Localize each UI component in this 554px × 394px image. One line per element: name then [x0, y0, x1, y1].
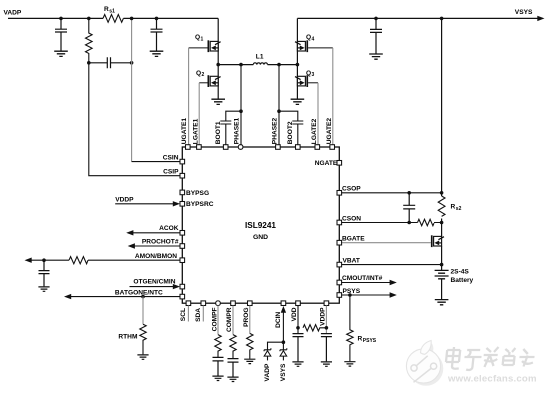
wire Q4 drain / phase2 column — [296, 18, 298, 98]
svg-text:Q: Q — [196, 70, 201, 77]
svg-text:CSON: CSON — [342, 215, 361, 222]
resistor AMON filter — [69, 257, 88, 264]
pin LGATE2 — [311, 118, 320, 149]
svg-text:BYPSG: BYPSG — [186, 190, 209, 197]
wire CSIN sense line — [132, 18, 180, 161]
resistor RTHM — [118, 324, 146, 354]
node AMON cap junction — [42, 258, 46, 262]
wire UGATE2 gate line — [308, 48, 333, 145]
pin PHASE2 — [272, 117, 281, 149]
svg-text:GND: GND — [253, 234, 268, 241]
svg-text:www.elecfans.com: www.elecfans.com — [447, 374, 537, 385]
diode VSYS ORing — [280, 342, 287, 381]
resistor PROG — [247, 333, 253, 358]
pin AMON/BMON — [135, 253, 185, 263]
node cap-left junction — [87, 61, 91, 65]
node phase1 — [216, 63, 220, 67]
svg-text:BOOT1: BOOT1 — [215, 121, 222, 144]
svg-text:CSIN: CSIN — [163, 154, 179, 161]
ground (VDD cap) — [292, 362, 303, 366]
svg-text:VADP: VADP — [4, 9, 22, 16]
capacitor CSOP-CSON filter — [403, 193, 415, 223]
ground (Q2 source) — [211, 99, 225, 104]
pin UGATE2 — [326, 118, 335, 150]
pin VDDP — [320, 301, 329, 334]
pin PSYS — [337, 288, 361, 298]
wire Q1 drain / phase1 column — [217, 18, 219, 98]
svg-text:3: 3 — [312, 72, 315, 78]
svg-text:VBAT: VBAT — [343, 257, 360, 264]
svg-text:VDDP: VDDP — [320, 307, 327, 326]
svg-text:2: 2 — [202, 72, 205, 78]
wire CMOUT/INT# output — [339, 280, 397, 285]
svg-text:CMOUT/INT#: CMOUT/INT# — [342, 275, 383, 282]
svg-text:NGATE: NGATE — [315, 160, 338, 167]
wire ACOK output arrow — [126, 230, 180, 235]
wire LGATE2 gate line — [308, 83, 318, 145]
pin NGATE — [315, 160, 342, 167]
pin CMOUT/INT# — [337, 275, 383, 285]
pin DCIN — [275, 301, 286, 342]
wire PHASE1 line down — [240, 65, 242, 145]
capacitor (horizontal, across Rs1) — [89, 57, 132, 68]
wire L1 to phase2 — [268, 64, 298, 66]
ground (RTHM) — [137, 355, 148, 359]
svg-text:COMPF: COMPF — [212, 308, 219, 332]
wire to VADP diode — [268, 342, 284, 350]
wire AMON/BMON output — [25, 258, 181, 263]
svg-text:L1: L1 — [256, 53, 264, 60]
capacitor COMPF — [213, 357, 224, 375]
wire phase1 to L1 — [218, 64, 253, 66]
pin ACOK — [159, 225, 185, 235]
wire OTGEN/CMIN input arrow — [130, 284, 181, 289]
svg-text:Q: Q — [195, 34, 200, 41]
svg-text:PSYS: PSYS — [343, 288, 361, 295]
resistor Rs1 — [103, 6, 123, 23]
pin PROCHOT# — [142, 239, 185, 249]
capacitor BOOT1 bootstrap — [220, 111, 241, 144]
svg-text:RTHM: RTHM — [118, 334, 138, 341]
ground (VDDP cap) — [321, 362, 332, 366]
wire PSYS output — [339, 292, 397, 297]
svg-text:SDA: SDA — [195, 308, 202, 322]
node cap-right junction — [130, 61, 134, 65]
resistor VDD-VDDP — [303, 325, 326, 331]
svg-text:1: 1 — [201, 36, 204, 42]
net label VADP — [4, 9, 22, 16]
ground (RPSYS) — [344, 362, 355, 366]
node CSOP-cap junction — [407, 191, 411, 195]
svg-text:Q: Q — [306, 34, 311, 41]
transistor BGATE FET — [431, 235, 444, 247]
capacitor input C (VADP) — [55, 18, 67, 50]
node phase2 / PHASE2 tap — [277, 63, 281, 67]
battery 2S-4S — [435, 268, 474, 284]
svg-text:PHASE1: PHASE1 — [233, 117, 240, 144]
node BOOT2 tap — [277, 109, 281, 113]
resistor COMPF — [215, 335, 221, 358]
ground (Q1 drain C) — [150, 51, 164, 56]
resistor COMPR — [230, 335, 236, 359]
wire PHASE2 line down — [278, 65, 280, 145]
ground (AMON cap) — [38, 287, 49, 291]
svg-text:BATGONE/NTC: BATGONE/NTC — [115, 289, 163, 296]
pin SDA — [195, 301, 206, 322]
wire VADP rail — [8, 17, 218, 19]
pin PHASE1 — [233, 117, 243, 149]
wire RTHM branch — [142, 297, 144, 325]
pin BYPSRC — [180, 201, 214, 208]
pin LGATE1 — [193, 118, 202, 149]
pin BOOT2 — [287, 121, 300, 149]
pin BOOT1 — [215, 121, 228, 149]
svg-text:PROCHOT#: PROCHOT# — [142, 239, 179, 246]
svg-text:VDDP: VDDP — [115, 196, 134, 203]
wire UGATE1 gate line — [189, 48, 208, 145]
svg-text:UGATE1: UGATE1 — [181, 118, 188, 145]
svg-text:4: 4 — [312, 36, 315, 42]
node RTHM tap — [141, 295, 145, 299]
node VSYS down-rail junction — [440, 17, 444, 21]
diode VADP ORing — [264, 348, 271, 381]
ground (Q3 source) — [291, 99, 305, 104]
pin VDD — [291, 301, 300, 334]
transistor Q1 — [195, 34, 221, 52]
node VSYS-C junction — [374, 17, 378, 21]
pin CSON — [337, 215, 361, 225]
SCHEMATIC4 — [180, 117, 334, 381]
transistor Q4 — [295, 34, 315, 52]
net label VDDP input arrow — [115, 196, 180, 206]
svg-text:LGATE2: LGATE2 — [311, 118, 318, 144]
node Rs1 right junction — [130, 17, 134, 21]
node Rs1 left junction — [87, 17, 91, 21]
node CSOP-Rs2 junction — [440, 191, 444, 195]
wire BATGONE/NTC — [64, 294, 180, 299]
node CSON-cap junction — [407, 221, 411, 225]
node DCIN diode junction — [282, 340, 286, 344]
svg-text:PSYS: PSYS — [363, 338, 377, 344]
wire VSYS rail — [297, 17, 538, 19]
svg-text:BOOT2: BOOT2 — [287, 121, 294, 144]
capacitor VDD — [293, 334, 304, 362]
capacitor AMON filter — [39, 260, 50, 286]
ground (input C) — [54, 51, 68, 56]
resistor divider (vertical at x=89) — [86, 18, 93, 62]
svg-text:VSYS: VSYS — [280, 363, 287, 381]
pin BGATE — [337, 236, 365, 246]
svg-text:ISL9241: ISL9241 — [245, 221, 276, 230]
ground (VSYS C) — [369, 54, 383, 59]
svg-text:CSIP: CSIP — [163, 169, 179, 176]
pin BYPSG — [180, 190, 209, 197]
svg-text:R: R — [104, 6, 109, 13]
ground (COMPR) — [227, 377, 238, 381]
svg-text:VDD: VDD — [291, 307, 298, 321]
svg-text:VADP: VADP — [264, 363, 271, 381]
resistor Rs2 — [438, 196, 461, 216]
node rail-C junction — [155, 17, 159, 21]
resistor RPSYS — [347, 295, 377, 361]
capacitor C (at Q1 drain) — [151, 18, 163, 50]
pin CSIN — [163, 154, 185, 164]
svg-text:Battery: Battery — [451, 277, 474, 284]
wire LGATE1 gate line — [199, 83, 207, 145]
svg-text:OTGEN/CMIN: OTGEN/CMIN — [133, 278, 175, 285]
SCHEMATIC2 — [182, 18, 473, 366]
svg-text:ACOK: ACOK — [159, 225, 179, 232]
node VADP-C junction — [59, 17, 63, 21]
pin BATGONE/NTC — [115, 289, 185, 299]
svg-text:BYPSRC: BYPSRC — [186, 201, 214, 208]
svg-text:LGATE1: LGATE1 — [193, 118, 200, 144]
svg-text:VSYS: VSYS — [515, 9, 533, 16]
transistor Q3 — [295, 70, 315, 87]
svg-text:PROG: PROG — [243, 308, 250, 327]
svg-text:BGATE: BGATE — [342, 236, 365, 243]
ground (battery) — [435, 300, 449, 305]
svg-text:2S-4S: 2S-4S — [451, 268, 470, 275]
pin OTGEN/CMIN — [133, 278, 184, 289]
svg-text:s2: s2 — [456, 206, 462, 212]
svg-text:R: R — [358, 335, 363, 342]
pin COMPF — [212, 301, 221, 335]
node CSON-Rs2 junction — [440, 221, 444, 225]
IC U1 ISL9241 body — [182, 147, 339, 303]
node PSYS-RPSYS junction — [348, 293, 352, 297]
svg-text:AMON/BMON: AMON/BMON — [135, 253, 177, 260]
net label VSYS with arrow — [515, 9, 545, 21]
transistor Q2 — [196, 70, 221, 87]
svg-text:COMPR: COMPR — [226, 307, 233, 332]
resistor CSON sense filter — [418, 219, 434, 225]
node VDDP junction — [325, 326, 329, 330]
node VBAT-battery junction — [440, 263, 444, 267]
wire CSIP sense line — [89, 63, 180, 176]
wire PROCHOT# output arrow — [128, 243, 180, 248]
capacitor VDDP — [321, 334, 332, 362]
svg-text:CSOP: CSOP — [342, 186, 361, 193]
ground (PROG) — [244, 359, 255, 363]
wire CSOP — [339, 192, 441, 194]
pin COMPR — [226, 301, 235, 335]
SCHEMATIC3 — [25, 154, 214, 359]
inductor L1 — [253, 53, 267, 64]
wire VSYS vertical rail to battery — [441, 18, 443, 299]
wire VBAT — [339, 264, 441, 266]
capacitor COMPR — [228, 359, 239, 377]
svg-text:UGATE2: UGATE2 — [326, 118, 333, 145]
node BOOT1 tap — [239, 109, 243, 113]
WATERMARK — [406, 341, 536, 386]
pin VBAT — [337, 257, 360, 267]
ground (COMPF) — [212, 376, 223, 380]
node VDD junction — [296, 326, 300, 330]
pin CSOP — [337, 186, 361, 196]
wire CSON — [339, 222, 441, 224]
pin UGATE1 — [181, 118, 190, 150]
svg-text:PHASE2: PHASE2 — [272, 117, 279, 144]
wire BGATE — [339, 242, 431, 244]
pin SCL — [180, 301, 191, 322]
node phase1 / PHASE1 tap — [239, 63, 243, 67]
svg-text:DCIN: DCIN — [275, 312, 282, 328]
svg-text:s1: s1 — [109, 8, 115, 14]
svg-text:SCL: SCL — [180, 308, 187, 321]
svg-text:R: R — [451, 203, 456, 210]
svg-text:Q: Q — [306, 70, 311, 77]
node phase2 — [296, 63, 300, 67]
capacitor BOOT2 bootstrap — [279, 111, 303, 144]
pin PROG — [243, 301, 252, 333]
pin CSIP — [163, 169, 184, 179]
capacitor VSYS C — [370, 18, 382, 53]
